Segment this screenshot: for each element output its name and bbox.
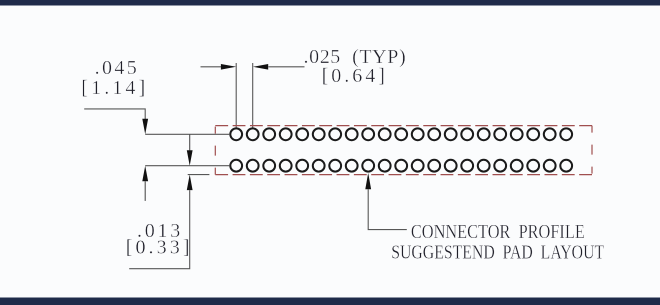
svg-text:[1.14]: [1.14] (81, 77, 148, 99)
.025 extension line 1 (235, 63, 237, 128)
leader arrowhead to pad row 2 (365, 173, 371, 189)
dimension text [1.14] (81, 77, 148, 99)
bottom border bar (0, 298, 660, 305)
.025 dimension line right segment (268, 66, 304, 68)
row 1 extension line (145, 133, 229, 135)
up arrowhead of .013 at pad bottom line (187, 175, 193, 191)
.025 dimension line left segment (201, 66, 222, 68)
pad bottom extension line (188, 174, 210, 176)
svg-text:CONNECTOR PROFILE: CONNECTOR PROFILE (411, 220, 585, 242)
note text SUGGESTEND PAD LAYOUT (391, 241, 604, 263)
row 2 extension line (145, 165, 229, 167)
left arrowhead of .025 (253, 64, 268, 70)
up arrowhead of .045 at row 2 (142, 166, 148, 182)
suggested pad layout outline (red dashed) (215, 126, 592, 175)
.013 lower leader and underline (129, 190, 190, 269)
pad row 1 (top, 21 circles) (230, 128, 572, 140)
svg-text:SUGGESTEND PAD LAYOUT: SUGGESTEND PAD LAYOUT (391, 241, 604, 263)
svg-text:[0.64]: [0.64] (322, 65, 388, 87)
lower tail of .045 dimension (144, 181, 146, 201)
leader line to connector profile note (368, 189, 407, 229)
dimension text [0.64] (322, 65, 388, 87)
dimension text .025 (TYP) (304, 46, 407, 68)
top border bar (0, 0, 660, 6)
leader line for .045 (84, 109, 145, 119)
pad row 2 (bottom, 21 circles) (230, 160, 572, 172)
.013 upper dimension line (189, 134, 191, 150)
down arrowhead of .013 at row 2 line (187, 150, 193, 165)
svg-text:.045: .045 (95, 57, 139, 79)
down arrowhead of .045 at row 1 (142, 119, 148, 135)
note text CONNECTOR PROFILE (411, 220, 585, 242)
svg-text:[0.33]: [0.33] (126, 237, 193, 259)
.025 extension line 2 (252, 63, 254, 128)
right arrowhead of .025 (221, 64, 236, 70)
dimension text .045 (95, 57, 139, 79)
dimension text [0.33] (126, 237, 193, 259)
dimension text .013 (137, 220, 183, 242)
